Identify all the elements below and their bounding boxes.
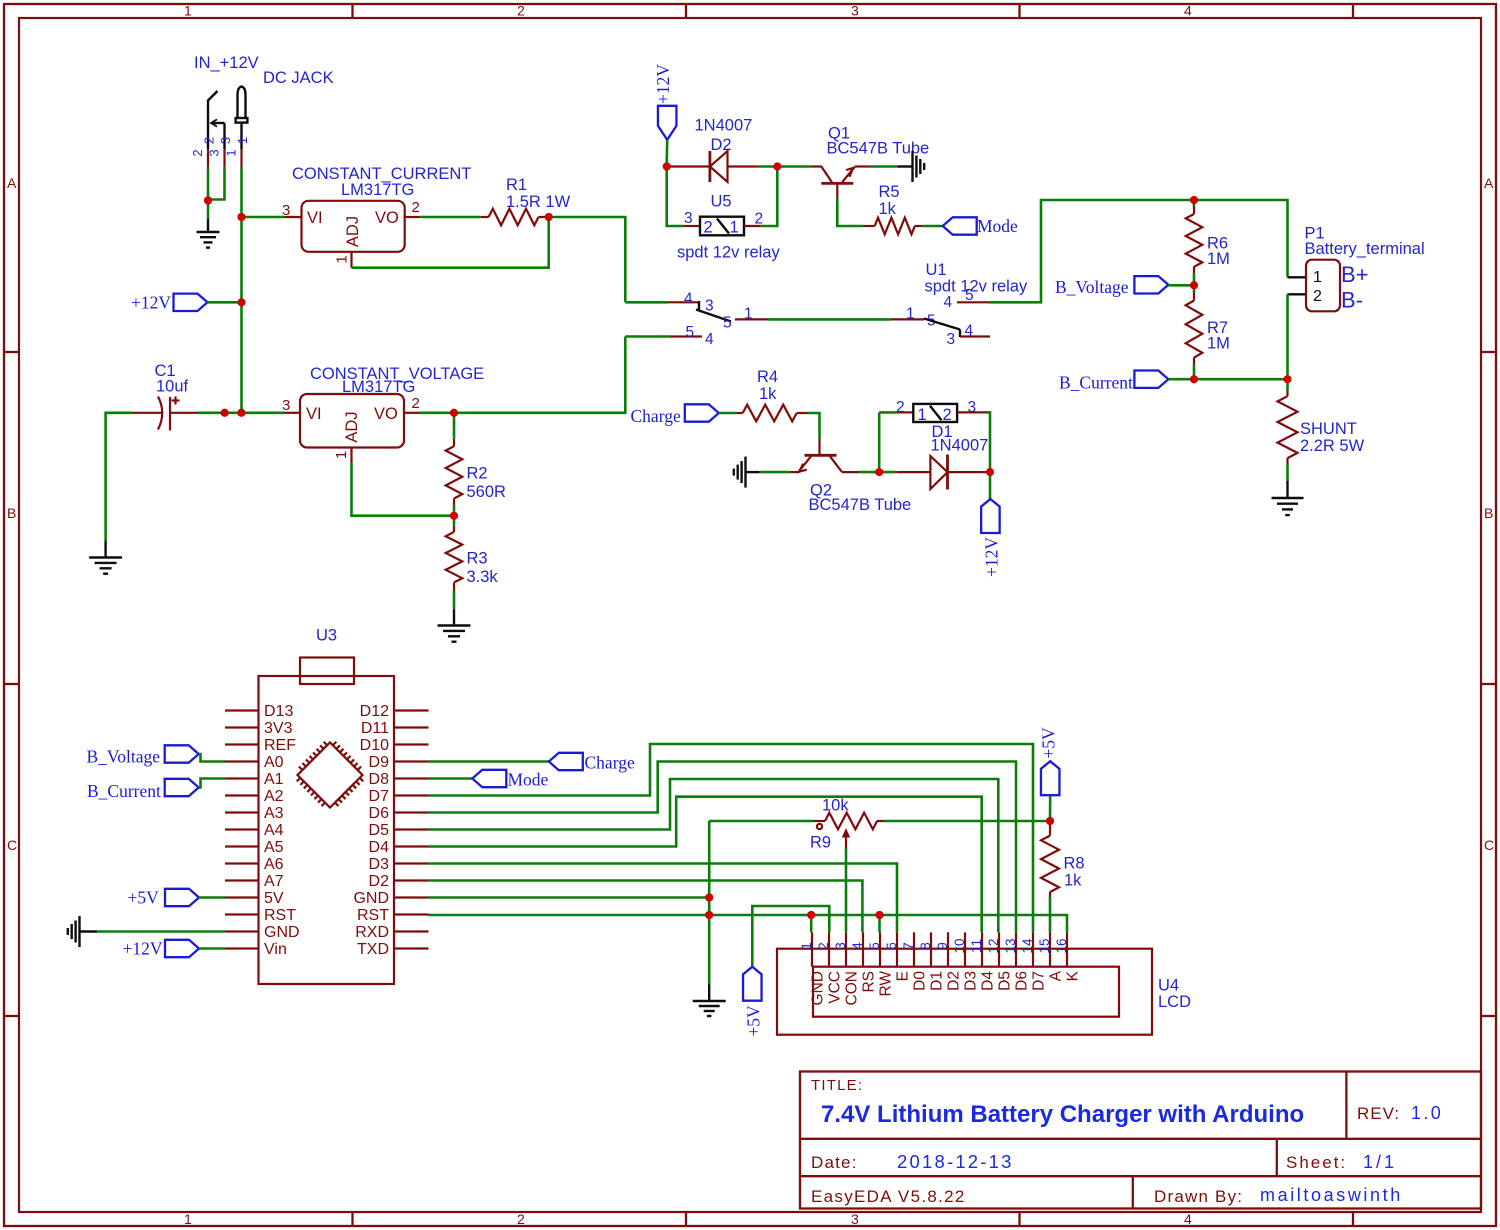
svg-text:2.2R 5W: 2.2R 5W	[1300, 437, 1365, 455]
svg-text:1/1: 1/1	[1363, 1152, 1397, 1172]
svg-text:D7: D7	[369, 788, 390, 805]
svg-text:12: 12	[986, 938, 1001, 953]
wire ADJ feedback	[352, 217, 549, 268]
svg-text:1.0: 1.0	[1411, 1103, 1443, 1123]
svg-text:D10: D10	[360, 737, 389, 754]
svg-text:R8: R8	[1064, 855, 1085, 873]
svg-text:2: 2	[412, 199, 420, 216]
svg-text:RXD: RXD	[355, 924, 389, 941]
wire D6 to LCD D6	[429, 762, 1017, 933]
svg-text:3.3k: 3.3k	[467, 568, 499, 586]
svg-text:VI: VI	[306, 405, 322, 423]
svg-text:3: 3	[282, 397, 290, 414]
svg-text:VO: VO	[375, 209, 399, 227]
svg-text:A1: A1	[264, 771, 284, 788]
ground Q1	[898, 151, 924, 182]
svg-text:7.4V Lithium Battery Charger w: 7.4V Lithium Battery Charger with Arduin…	[821, 1101, 1304, 1128]
svg-text:D4: D4	[369, 839, 390, 856]
relay U5 contact	[625, 301, 667, 304]
wire B_Current row	[1168, 378, 1287, 381]
svg-text:3: 3	[705, 298, 714, 315]
svg-text:B: B	[1484, 505, 1493, 521]
svg-text:A0: A0	[264, 754, 284, 771]
svg-text:GND: GND	[353, 890, 389, 907]
svg-text:CON: CON	[843, 971, 860, 1005]
svg-text:TITLE:: TITLE:	[811, 1077, 863, 1094]
svg-text:LCD: LCD	[1158, 993, 1191, 1011]
svg-text:A4: A4	[264, 822, 284, 839]
svg-text:2: 2	[704, 219, 713, 237]
net flag Mode (U3)	[472, 770, 506, 787]
wire LCD pin1	[810, 915, 813, 932]
net flag Mode	[943, 217, 977, 234]
svg-text:TXD: TXD	[357, 941, 389, 958]
wire to battery	[989, 200, 1288, 302]
wire	[208, 301, 242, 304]
svg-text:3: 3	[218, 137, 233, 144]
svg-text:R5: R5	[879, 183, 900, 201]
svg-text:A3: A3	[264, 805, 284, 822]
svg-text:REV:: REV:	[1357, 1104, 1400, 1123]
svg-text:B_Current: B_Current	[87, 781, 161, 801]
svg-text:+5V: +5V	[128, 888, 160, 908]
svg-text:D7: D7	[1030, 971, 1047, 991]
svg-text:3: 3	[851, 1211, 859, 1227]
svg-text:U5: U5	[711, 193, 732, 211]
wire C1 right	[198, 411, 285, 414]
svg-text:D6: D6	[1013, 971, 1030, 991]
svg-text:D3: D3	[962, 971, 979, 991]
svg-text:16: 16	[1054, 938, 1069, 953]
svg-text:U4: U4	[1158, 977, 1179, 995]
net flag Charge (U3)	[549, 753, 583, 770]
svg-text:5: 5	[867, 942, 882, 950]
wire	[923, 225, 943, 228]
ground C1	[89, 541, 122, 574]
svg-text:4: 4	[850, 942, 865, 950]
svg-text:VI: VI	[307, 209, 323, 227]
svg-text:2: 2	[943, 406, 952, 424]
svg-text:1: 1	[1313, 269, 1322, 286]
svg-text:1M: 1M	[1207, 250, 1230, 268]
svg-text:BC547B Tube: BC547B Tube	[827, 140, 930, 158]
svg-text:9: 9	[935, 942, 950, 950]
svg-text:A: A	[7, 175, 17, 191]
svg-text:B-: B-	[1341, 288, 1363, 313]
svg-text:IN_+12V: IN_+12V	[194, 54, 259, 72]
svg-text:Battery_terminal: Battery_terminal	[1305, 240, 1425, 258]
svg-text:3: 3	[833, 942, 848, 950]
wire P1 pin2 down	[1286, 294, 1289, 379]
wire D4 to LCD D4	[429, 797, 982, 933]
svg-text:4: 4	[705, 331, 714, 348]
svg-text:RS: RS	[860, 971, 877, 993]
wire GND vertical	[708, 821, 711, 985]
wire	[665, 140, 668, 167]
svg-text:13: 13	[1003, 938, 1018, 953]
wire R1 to switch	[549, 217, 626, 302]
svg-text:3V3: 3V3	[264, 720, 293, 737]
svg-text:D8: D8	[369, 771, 390, 788]
svg-text:D6: D6	[369, 805, 390, 822]
ground (below R9 net)	[693, 985, 726, 1017]
wire LCD pin5	[878, 915, 881, 932]
svg-text:1: 1	[906, 306, 915, 323]
svg-text:11: 11	[969, 939, 984, 953]
svg-text:1: 1	[334, 255, 351, 263]
svg-text:RST: RST	[357, 907, 389, 924]
svg-text:1: 1	[333, 451, 350, 459]
svg-text:ADJ: ADJ	[343, 411, 361, 442]
wire emitter to ground	[760, 471, 790, 474]
wire R4 to Q2 base	[807, 413, 820, 439]
svg-text:GND: GND	[809, 971, 826, 1005]
svg-text:7: 7	[901, 942, 916, 950]
svg-text:B_Voltage: B_Voltage	[87, 747, 161, 767]
svg-text:560R: 560R	[467, 483, 507, 501]
svg-text:B_Voltage: B_Voltage	[1055, 277, 1129, 297]
svg-text:6: 6	[884, 942, 899, 950]
svg-text:5: 5	[723, 315, 732, 332]
svg-text:GND: GND	[264, 924, 300, 941]
svg-text:1: 1	[224, 149, 239, 156]
svg-text:EasyEDA V5.8.22: EasyEDA V5.8.22	[811, 1187, 966, 1206]
wire	[758, 165, 777, 168]
svg-text:D1: D1	[928, 971, 945, 991]
svg-text:spdt 12v relay: spdt 12v relay	[925, 278, 1028, 296]
wire D2 to LCD RS	[429, 881, 863, 933]
net flag +12V (bottom)	[989, 472, 992, 499]
svg-text:2: 2	[1313, 288, 1322, 305]
svg-text:1: 1	[235, 137, 250, 144]
svg-text:Mode: Mode	[508, 770, 549, 790]
svg-text:BC547B Tube: BC547B Tube	[809, 496, 912, 514]
svg-text:D5: D5	[996, 971, 1013, 991]
svg-text:2: 2	[412, 395, 420, 412]
svg-text:+12V: +12V	[123, 939, 163, 959]
svg-text:REF: REF	[264, 737, 296, 754]
svg-text:4: 4	[944, 294, 953, 311]
svg-text:1: 1	[730, 219, 739, 237]
svg-text:R9: R9	[810, 834, 831, 852]
wire D9	[429, 760, 549, 763]
svg-text:15: 15	[1037, 938, 1052, 953]
svg-text:1k: 1k	[759, 385, 777, 403]
ground SHUNT	[1272, 481, 1304, 515]
svg-text:4: 4	[1184, 3, 1192, 19]
svg-text:+12V: +12V	[653, 64, 673, 104]
svg-text:4: 4	[1184, 1211, 1192, 1227]
svg-text:4: 4	[965, 323, 974, 340]
svg-text:SHUNT: SHUNT	[1300, 420, 1357, 438]
ground jack	[207, 201, 210, 220]
svg-text:10uf: 10uf	[156, 378, 189, 396]
svg-text:+12V: +12V	[982, 537, 1002, 577]
wire GND row	[429, 896, 710, 899]
ground R3	[438, 610, 471, 642]
ground U3 GND	[97, 930, 225, 933]
wire D7 to LCD D7	[429, 744, 1034, 932]
junction dots top layer	[204, 197, 212, 205]
svg-text:U1: U1	[926, 261, 947, 279]
svg-text:R3: R3	[467, 550, 488, 568]
svg-text:3: 3	[947, 331, 956, 348]
svg-text:5V: 5V	[264, 890, 284, 907]
svg-text:DC JACK: DC JACK	[263, 69, 334, 87]
svg-text:R2: R2	[467, 465, 488, 483]
svg-text:A7: A7	[264, 873, 284, 890]
svg-text:Drawn By:: Drawn By:	[1154, 1187, 1243, 1206]
svg-text:2: 2	[517, 1211, 525, 1227]
wire C1 left	[106, 413, 132, 541]
title block	[800, 1072, 1481, 1209]
svg-text:4: 4	[684, 291, 693, 308]
wire VO row	[420, 337, 626, 413]
wire D5 to LCD D5	[429, 779, 999, 932]
svg-text:1N4007: 1N4007	[695, 117, 753, 135]
jack pin stubs	[208, 149, 242, 167]
svg-text:+12V: +12V	[131, 293, 171, 313]
svg-text:B_Current: B_Current	[1059, 373, 1133, 393]
wire VO to R1	[420, 216, 481, 219]
svg-text:1: 1	[918, 406, 927, 424]
U3 pins	[225, 711, 429, 949]
svg-text:A5: A5	[264, 839, 284, 856]
svg-text:C: C	[7, 837, 17, 853]
svg-text:1M: 1M	[1207, 335, 1230, 353]
svg-text:RW: RW	[877, 971, 894, 997]
svg-text:D12: D12	[360, 703, 389, 720]
ground Q2	[734, 457, 760, 488]
svg-text:ADJ: ADJ	[344, 216, 362, 247]
svg-text:2: 2	[517, 3, 525, 19]
svg-text:2018-12-13: 2018-12-13	[897, 1151, 1014, 1172]
svg-text:Charge: Charge	[631, 406, 681, 426]
svg-text:A: A	[1484, 175, 1494, 191]
svg-text:D13: D13	[264, 703, 293, 720]
svg-text:D0: D0	[911, 971, 928, 991]
svg-text:R4: R4	[757, 368, 778, 386]
svg-text:D3: D3	[369, 856, 390, 873]
svg-text:K: K	[1064, 970, 1081, 981]
svg-text:RST: RST	[264, 907, 296, 924]
svg-text:D9: D9	[369, 754, 390, 771]
svg-text:Date:: Date:	[811, 1153, 858, 1172]
svg-text:E: E	[894, 971, 911, 981]
wire Q1 emitter	[870, 165, 898, 168]
svg-text:2: 2	[896, 399, 905, 416]
svg-text:1: 1	[799, 942, 814, 950]
svg-text:1k: 1k	[1064, 872, 1082, 890]
svg-text:mailtoaswinth: mailtoaswinth	[1260, 1185, 1403, 1205]
wire ADJ	[352, 463, 455, 516]
svg-text:B: B	[7, 505, 16, 521]
svg-text:2: 2	[190, 149, 205, 156]
svg-text:D2: D2	[945, 971, 962, 991]
svg-text:10k: 10k	[822, 797, 849, 815]
svg-text:D2: D2	[369, 873, 390, 890]
svg-text:C: C	[1484, 837, 1494, 853]
wire jack pin1 down	[240, 167, 243, 413]
junction	[204, 197, 212, 205]
wire common	[735, 318, 768, 320]
svg-text:14: 14	[1020, 938, 1035, 954]
wire Q1 base	[836, 183, 838, 198]
svg-text:1: 1	[184, 3, 192, 19]
svg-text:A2: A2	[264, 788, 284, 805]
svg-text:Charge: Charge	[585, 753, 635, 773]
wire VI	[242, 216, 285, 219]
relay coil U1	[878, 412, 881, 472]
svg-text:VCC: VCC	[826, 971, 843, 1004]
svg-text:8: 8	[918, 942, 933, 950]
U3 chip glyph	[290, 735, 369, 814]
svg-text:R1: R1	[506, 176, 527, 194]
svg-text:1k: 1k	[879, 200, 897, 218]
svg-text:A6: A6	[264, 856, 284, 873]
svg-text:Vin: Vin	[264, 941, 287, 958]
wire RST row	[429, 915, 1068, 932]
wire D8	[429, 777, 473, 780]
wire D3 to LCD E	[429, 864, 898, 933]
svg-text:1N4007: 1N4007	[931, 437, 989, 455]
svg-text:3: 3	[684, 210, 693, 227]
wire jack pins	[207, 167, 210, 201]
svg-text:VO: VO	[374, 405, 398, 423]
svg-text:B+: B+	[1341, 262, 1369, 287]
wire VCC staple	[752, 906, 829, 967]
svg-text:2: 2	[816, 942, 831, 950]
svg-text:D5: D5	[369, 822, 390, 839]
svg-text:A: A	[1047, 970, 1064, 981]
net flag +5V (LCD)	[743, 967, 762, 1001]
svg-text:10: 10	[952, 938, 967, 953]
svg-text:1.5R 1W: 1.5R 1W	[506, 193, 571, 211]
svg-text:D11: D11	[361, 720, 389, 737]
svg-text:spdt 12v relay: spdt 12v relay	[677, 244, 780, 262]
svg-text:5: 5	[686, 324, 695, 341]
svg-text:Mode: Mode	[977, 216, 1018, 236]
svg-text:U3: U3	[316, 627, 337, 645]
wire collector	[859, 471, 879, 474]
svg-text:LM317TG: LM317TG	[341, 181, 414, 199]
svg-text:+5V: +5V	[744, 1005, 764, 1037]
svg-text:+5V: +5V	[1039, 727, 1059, 759]
svg-text:1: 1	[184, 1211, 192, 1227]
svg-text:Sheet:: Sheet:	[1286, 1153, 1347, 1172]
svg-text:D4: D4	[979, 971, 996, 991]
svg-text:2: 2	[202, 137, 217, 144]
svg-text:3: 3	[851, 3, 859, 19]
